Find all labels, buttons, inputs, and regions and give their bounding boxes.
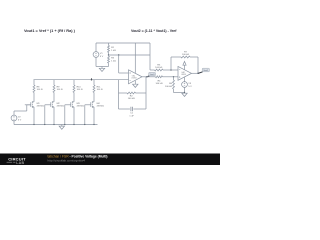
svg-text:100 Ω: 100 Ω xyxy=(77,89,83,91)
svg-text:5 V: 5 V xyxy=(188,86,192,88)
svg-text:LM358: LM358 xyxy=(131,78,136,80)
svg-text:5 V: 5 V xyxy=(18,119,22,121)
svg-text:2N7000: 2N7000 xyxy=(97,106,105,108)
svg-text:100 Ω: 100 Ω xyxy=(97,89,103,91)
svg-text:Vout1: Vout1 xyxy=(150,73,155,76)
svg-text:100 kΩ: 100 kΩ xyxy=(128,98,135,100)
svg-text:1 uF: 1 uF xyxy=(129,115,134,117)
svg-text:100 Ω: 100 Ω xyxy=(37,89,43,91)
svg-text:100 kΩ: 100 kΩ xyxy=(182,54,189,56)
svg-text:LAB: LAB xyxy=(16,161,24,165)
svg-text:100 kΩ: 100 kΩ xyxy=(155,67,162,69)
svg-text:Vout1 = Vref * (1 + (Rf / Ra): Vout1 = Vref * (1 + (Rf / Ra) ) xyxy=(24,28,76,33)
svg-text:2N7000: 2N7000 xyxy=(77,106,85,108)
svg-text:1 kΩ: 1 kΩ xyxy=(111,60,116,62)
svg-text:2N7000: 2N7000 xyxy=(37,106,45,108)
svg-text:LM358: LM358 xyxy=(181,74,186,76)
svg-text:100 kΩ: 100 kΩ xyxy=(156,83,163,85)
svg-text:http://circuitlab.com/crgmbw4: http://circuitlab.com/crgmbw4 xyxy=(48,159,86,163)
svg-text:Vout2: Vout2 xyxy=(203,69,208,72)
svg-text:100 Ω: 100 Ω xyxy=(57,89,63,91)
svg-text:1 kΩ: 1 kΩ xyxy=(111,50,116,52)
svg-text:100 kΩ: 100 kΩ xyxy=(165,86,172,88)
svg-text:5 V: 5 V xyxy=(100,56,104,58)
svg-text:Vout2 = (1.11 * Vout1) - Vref: Vout2 = (1.11 * Vout1) - Vref xyxy=(131,29,177,33)
svg-text:2N7000: 2N7000 xyxy=(57,106,65,108)
